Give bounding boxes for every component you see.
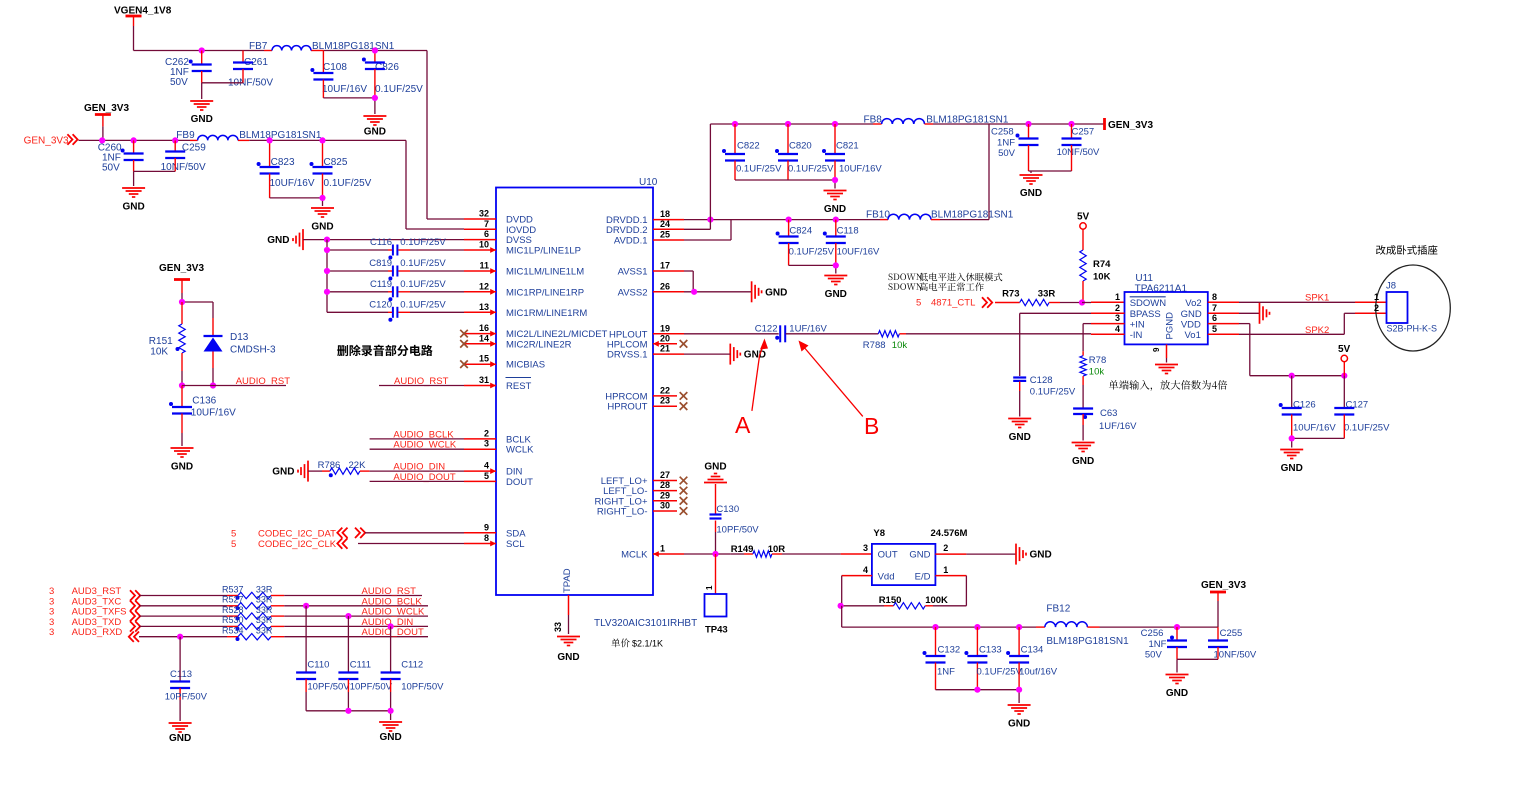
wire FB12 out: [1087, 626, 1218, 628]
svg-text:10PF/50V: 10PF/50V: [350, 682, 393, 693]
ground GND below C113: [169, 723, 192, 744]
svg-text:C110: C110: [307, 660, 329, 671]
junction dot C260 top: [131, 137, 137, 143]
svg-text:0.1UF/25V: 0.1UF/25V: [324, 178, 372, 189]
power port 5V at R74: [1077, 212, 1090, 230]
junction dot pin18: [707, 217, 713, 223]
svg-text:32: 32: [479, 209, 489, 219]
U10 pin 8 SCL: [464, 533, 524, 550]
svg-text:10k: 10k: [892, 340, 908, 351]
svg-text:MIC1LM/LINE1LM: MIC1LM/LINE1LM: [506, 267, 584, 278]
capacitor C126: [1279, 376, 1337, 439]
svg-text:7: 7: [484, 219, 489, 229]
svg-text:C132: C132: [938, 645, 961, 656]
svg-text:GND: GND: [311, 222, 333, 233]
svg-text:4: 4: [484, 461, 489, 471]
svg-text:27: 27: [660, 470, 670, 480]
svg-text:5: 5: [916, 298, 921, 309]
junction dot C134 bottom: [1016, 687, 1022, 693]
junction dot AUDIO_RST left: [179, 382, 185, 388]
U10 pin 13 MIC1RM/LINE1RM: [464, 302, 587, 319]
resistor R788: [863, 331, 908, 351]
connector J8: [1374, 265, 1450, 351]
capacitor C110: [296, 606, 350, 711]
svg-text:1NF: 1NF: [997, 138, 1015, 149]
svg-text:10uf/16V: 10uf/16V: [1019, 667, 1058, 678]
wire C824 C118 bottom: [789, 265, 836, 273]
svg-text:FB9: FB9: [176, 130, 195, 141]
junction dot C262 top: [199, 47, 205, 53]
svg-text:-IN: -IN: [1130, 330, 1143, 341]
ferrite bead FB9: [176, 130, 322, 141]
resistor R74: [1080, 229, 1111, 302]
wire C262 C261 bottom: [202, 83, 243, 99]
svg-text:U10: U10: [639, 177, 658, 188]
ferrite bead FB10: [866, 210, 1014, 221]
wire GEN3V3 node to branches: [182, 293, 213, 318]
junction dot C111 bottom: [345, 708, 351, 714]
wire top DRVDD rail: [710, 123, 881, 125]
svg-text:15: 15: [479, 354, 489, 364]
capacitor C825: [310, 140, 372, 198]
wire C108 C826 bottom: [323, 98, 375, 114]
capacitor C111: [338, 616, 392, 711]
capacitor C119: [324, 279, 464, 302]
callout B arrow: [799, 341, 880, 440]
svg-text:5V: 5V: [1338, 344, 1351, 355]
junction dot C133 bottom: [974, 687, 980, 693]
svg-text:23: 23: [660, 396, 670, 406]
svg-text:10PF/50V: 10PF/50V: [716, 525, 759, 536]
wire C126 C127 bottom: [1292, 438, 1345, 447]
junction dot R73 R74 U11pin1: [1079, 299, 1085, 305]
svg-text:3: 3: [49, 627, 54, 638]
svg-text:5: 5: [231, 539, 236, 550]
capacitor C63: [1073, 408, 1137, 441]
svg-text:GEN_3V3: GEN_3V3: [1108, 120, 1153, 131]
capacitor C120: [327, 299, 464, 322]
wire C256 C255 bottom: [1177, 659, 1218, 672]
svg-text:$2.1/1K: $2.1/1K: [632, 639, 663, 649]
svg-text:GND: GND: [169, 733, 191, 744]
ground GND below C262: [190, 101, 213, 125]
svg-text:C820: C820: [789, 141, 812, 152]
resistor R527 net AUD3_TXC: [49, 595, 428, 611]
capacitor C826: [362, 51, 423, 98]
U10 pin 3 WCLK: [464, 439, 534, 456]
svg-text:+IN: +IN: [1130, 319, 1145, 330]
ground GND sideways U11 pin7: [1260, 303, 1270, 324]
svg-text:GEN_3V3: GEN_3V3: [159, 263, 204, 274]
U10 pin 27 LEFT_LO+: [601, 470, 688, 487]
svg-text:0.1UF/25V: 0.1UF/25V: [1030, 387, 1076, 398]
U11 pin 3 +IN: [1091, 313, 1145, 330]
U10 pin 20 HPLCOM: [607, 333, 687, 350]
svg-text:R537: R537: [222, 584, 244, 594]
svg-text:C128: C128: [1030, 375, 1053, 386]
svg-text:C826: C826: [375, 62, 399, 73]
svg-text:10UF/16V: 10UF/16V: [191, 408, 236, 419]
capacitor C257: [1057, 121, 1100, 171]
net port GEN_3V3 red: [24, 134, 78, 146]
svg-text:BLM18PG181SN1: BLM18PG181SN1: [239, 130, 322, 141]
U10 pin 4 DIN: [464, 461, 523, 478]
svg-text:10UF/16V: 10UF/16V: [1293, 423, 1336, 434]
svg-text:10: 10: [479, 240, 489, 250]
svg-text:SDA: SDA: [506, 528, 526, 539]
wire AVSS1 pin17: [684, 271, 693, 292]
ground GND below C825: [311, 208, 334, 233]
ground GND above C130: [704, 462, 727, 483]
svg-text:R530: R530: [222, 615, 244, 625]
wire U11 GND pin7: [1239, 312, 1260, 314]
capacitor C134: [1006, 627, 1058, 690]
svg-text:REST: REST: [506, 381, 532, 392]
svg-text:C111: C111: [350, 660, 371, 671]
wire AUDIO_DOUT: [370, 480, 464, 482]
svg-text:C822: C822: [737, 141, 760, 152]
net label AUDIO_RST left: [236, 376, 291, 387]
wire FB7 rail to DVDD pin32: [427, 51, 464, 220]
svg-text:GND: GND: [1020, 188, 1042, 199]
wire C260 C259 bottom: [134, 171, 176, 186]
wire +IN to R78: [1083, 324, 1091, 352]
Y8 pin 4 Vdd: [842, 565, 895, 583]
svg-text:DRVSS.1: DRVSS.1: [607, 350, 647, 361]
capacitor C133: [964, 627, 1022, 690]
wire Vdd loop down: [841, 576, 843, 606]
svg-text:R149: R149: [731, 544, 754, 555]
svg-text:DRVDD.2: DRVDD.2: [606, 225, 648, 236]
junction dot C825 bottom: [319, 195, 325, 201]
svg-text:GND: GND: [1166, 688, 1188, 699]
wire AUDIO_WCLK: [370, 448, 464, 450]
svg-text:FB12: FB12: [1046, 604, 1070, 615]
svg-text:C255: C255: [1220, 628, 1243, 639]
svg-text:C63: C63: [1100, 408, 1117, 419]
capacitor C128: [1013, 375, 1076, 417]
svg-text:VGEN4_1V8: VGEN4_1V8: [114, 6, 172, 17]
svg-text:GND: GND: [1030, 550, 1052, 561]
svg-text:GND: GND: [557, 652, 579, 663]
wire DRVSS1: [684, 353, 730, 355]
svg-text:MICBIAS: MICBIAS: [506, 360, 545, 371]
capacitor C113: [165, 637, 208, 721]
note delete recording circuit: [337, 345, 432, 357]
resistor R537 net AUD3_RST: [49, 584, 422, 600]
capacitor C259: [161, 140, 207, 173]
capacitor C112: [381, 626, 445, 710]
wire Y8 pin2 to GND: [966, 553, 1016, 555]
svg-text:GND: GND: [909, 550, 930, 561]
svg-text:FB7: FB7: [249, 41, 268, 52]
svg-text:C257: C257: [1072, 127, 1095, 138]
svg-text:R74: R74: [1093, 259, 1111, 270]
svg-text:R78: R78: [1089, 355, 1106, 366]
svg-text:21: 21: [660, 344, 670, 354]
junction dot MCLK TP43: [712, 551, 718, 557]
svg-text:4: 4: [1115, 324, 1120, 334]
svg-text:C256: C256: [1141, 628, 1164, 639]
wire GEN_3V3 rail: [79, 126, 198, 140]
svg-text:2: 2: [1374, 303, 1379, 313]
power port GEN_3V3 left-top: [84, 103, 129, 126]
resistor R786: [308, 460, 370, 477]
svg-text:FB8: FB8: [864, 115, 883, 126]
ground GND below C136: [171, 448, 194, 473]
wire R788 to U11 -IN: [906, 333, 1091, 335]
svg-text:TP43: TP43: [705, 625, 728, 636]
svg-text:AVDD.1: AVDD.1: [614, 236, 648, 247]
junction dot C111 tap: [345, 613, 351, 619]
svg-text:3: 3: [1115, 313, 1120, 323]
power port VGEN4_1V8: [114, 6, 172, 27]
svg-text:33: 33: [553, 622, 563, 632]
svg-text:C113: C113: [170, 669, 192, 680]
U10 pin 16 MIC2L/LINE2L/MICDET: [460, 323, 607, 340]
svg-text:4871_CTL: 4871_CTL: [931, 298, 975, 309]
svg-text:0.1UF/25V: 0.1UF/25V: [375, 84, 423, 95]
svg-text:2: 2: [484, 428, 489, 438]
U10 pin 28 LEFT_LO-: [603, 480, 687, 497]
junction dot C113 tap: [177, 634, 183, 640]
svg-text:10UF/16V: 10UF/16V: [839, 164, 882, 175]
U10 pin 25 AVDD.1: [614, 230, 684, 247]
junction dot C112 tap: [388, 623, 394, 629]
power port GEN_3V3 right: [1105, 118, 1154, 131]
svg-text:3: 3: [484, 439, 489, 449]
svg-text:9: 9: [1152, 347, 1161, 352]
test point TP43: [705, 554, 728, 636]
svg-text:0.1UF/25V: 0.1UF/25V: [736, 164, 782, 175]
svg-text:0.1UF/25V: 0.1UF/25V: [400, 237, 446, 248]
svg-text:25: 25: [660, 230, 670, 240]
Y8 pin 3 OUT: [863, 543, 898, 561]
net label SPK1: [1305, 292, 1329, 303]
U10 pin 12 MIC1RP/LINE1RP: [464, 281, 584, 298]
svg-text:2: 2: [943, 543, 948, 553]
U10 pin 19 HPLOUT: [609, 323, 684, 340]
svg-text:MIC1LP/LINE1LP: MIC1LP/LINE1LP: [506, 246, 581, 257]
svg-text:C122: C122: [755, 324, 778, 335]
U10 pin 1 MCLK: [621, 544, 684, 561]
U10 pin 22 HPRCOM: [605, 385, 687, 402]
svg-text:50V: 50V: [170, 77, 188, 88]
net label SPK2: [1305, 325, 1329, 336]
U10 pin 33 TPAD: [553, 568, 573, 634]
ground GND sideways at DVSS: [267, 229, 303, 250]
svg-text:GND: GND: [1008, 719, 1030, 730]
ferrite bead FB12: [1045, 604, 1129, 648]
U10 pin 32 DVDD: [464, 209, 533, 226]
svg-text:C821: C821: [836, 141, 859, 152]
ground GND below C128: [1008, 419, 1031, 444]
svg-text:0.1UF/25V: 0.1UF/25V: [400, 279, 446, 290]
net label AUDIO_BCLK: [393, 429, 454, 440]
svg-text:GND: GND: [765, 287, 787, 298]
wire DRVDD pin18 rail: [684, 219, 888, 221]
callout A arrow: [735, 339, 768, 439]
ground GND below C134: [1008, 705, 1031, 730]
junction dot 5V drop: [1341, 373, 1347, 379]
svg-text:6: 6: [1212, 313, 1217, 323]
U10 pin 26 AVSS2: [618, 281, 684, 298]
U10 pin 11 MIC1LM/LINE1LM: [464, 261, 584, 278]
wire C258 C257 bottom: [1029, 171, 1072, 173]
svg-text:R527: R527: [222, 595, 244, 605]
svg-text:GND: GND: [1009, 432, 1031, 443]
svg-text:22K: 22K: [349, 460, 367, 471]
U10 pin 9 SDA: [464, 522, 526, 539]
U11 pin 6 VDD: [1181, 313, 1239, 330]
svg-text:CODEC_I2C_CLK: CODEC_I2C_CLK: [258, 539, 337, 550]
svg-text:GND: GND: [191, 114, 213, 125]
svg-text:C116: C116: [370, 237, 392, 248]
wire SDA: [365, 532, 464, 534]
capacitor C256: [1141, 627, 1187, 660]
junction dot R151 top: [179, 299, 185, 305]
capacitor C136: [169, 386, 236, 447]
svg-text:GND: GND: [379, 732, 401, 743]
resistor R534 net AUD3_RXD: [49, 626, 428, 642]
U10 pin 18 DRVDD.1: [606, 209, 684, 226]
ground GND below C112: [379, 722, 402, 743]
svg-text:B: B: [864, 413, 879, 439]
U10 part number: [594, 618, 697, 629]
junction dot C133 top: [974, 624, 980, 630]
svg-text:BLM18PG181SN1: BLM18PG181SN1: [931, 210, 1014, 221]
resistor R78: [1080, 351, 1106, 408]
svg-text:13: 13: [479, 302, 489, 312]
svg-text:20: 20: [660, 333, 670, 343]
wire AUDIO_RST left: [182, 385, 286, 387]
svg-text:DVSS: DVSS: [506, 235, 532, 246]
svg-text:E/D: E/D: [915, 571, 931, 582]
ground GND below C118: [824, 276, 847, 301]
svg-text:5: 5: [1212, 324, 1217, 334]
note amplifier gain: [1109, 380, 1227, 391]
ground GND below C826: [363, 116, 386, 138]
svg-text:DOUT: DOUT: [506, 477, 533, 488]
svg-text:C130: C130: [716, 504, 739, 515]
svg-text:C136: C136: [192, 396, 216, 407]
svg-text:J8: J8: [1386, 281, 1396, 292]
svg-text:10NF/50V: 10NF/50V: [1214, 650, 1257, 661]
wire DVSS to GND bus: [303, 239, 464, 241]
svg-text:6: 6: [484, 229, 489, 239]
wire BPASS to C128: [1020, 313, 1091, 376]
svg-text:GND: GND: [1072, 456, 1094, 467]
net port 4871_CTL: [916, 297, 992, 308]
svg-text:Vo2: Vo2: [1185, 298, 1201, 309]
capacitor C122: [755, 324, 828, 343]
svg-text:GEN_3V3: GEN_3V3: [1201, 580, 1246, 591]
svg-text:0.1UF/25V: 0.1UF/25V: [788, 164, 834, 175]
wire R149 to Y8: [782, 553, 872, 555]
svg-text:R528: R528: [222, 605, 244, 615]
U10 pin 5 DOUT: [464, 471, 533, 488]
svg-text:18: 18: [660, 209, 670, 219]
capacitor C127: [1334, 376, 1390, 439]
junction dot AUDIO_RST D13: [210, 382, 216, 388]
svg-text:7: 7: [1212, 303, 1217, 313]
svg-text:SDOWN: SDOWN: [1130, 298, 1167, 309]
svg-text:11: 11: [479, 261, 489, 271]
wire VDD to 5V rail: [1239, 324, 1344, 376]
junction dot C256 top: [1174, 624, 1180, 630]
svg-text:10PF/50V: 10PF/50V: [307, 682, 350, 693]
U10 pin 30 RIGHT_LO-: [597, 501, 687, 518]
svg-text:24.576M: 24.576M: [931, 528, 968, 539]
svg-text:CODEC_I2C_DAT: CODEC_I2C_DAT: [258, 528, 336, 539]
svg-text:28: 28: [660, 480, 670, 490]
svg-text:VDD: VDD: [1181, 319, 1201, 330]
ferrite bead FB8: [864, 115, 1009, 126]
junction dot R150 left: [838, 603, 844, 609]
wire Vo2 SPK1: [1239, 301, 1387, 303]
capacitor C260: [98, 140, 144, 173]
svg-text:Vo1: Vo1: [1185, 330, 1201, 341]
capacitor C822: [722, 121, 782, 180]
svg-text:50V: 50V: [102, 163, 120, 174]
svg-text:D13: D13: [230, 332, 249, 343]
wire AUDIO_DIN: [370, 470, 464, 472]
junction dot C821 bottom: [832, 177, 838, 183]
junction dot C823 top: [267, 137, 273, 143]
U11 pin 2 BPASS: [1091, 303, 1161, 320]
diode D13: [204, 318, 276, 386]
junction dot DVSS bus: [324, 237, 330, 243]
svg-text:GND: GND: [364, 127, 386, 138]
wire 4871_CTL to R73: [995, 302, 1020, 304]
svg-text:9: 9: [484, 522, 489, 532]
ground GND below C260: [122, 188, 145, 213]
junction dot C825 top: [319, 137, 325, 143]
junction dot C108 bottom rail: [372, 95, 378, 101]
crystal Y8 box: [872, 528, 968, 585]
svg-text:2: 2: [1115, 303, 1120, 313]
capacitor C819: [324, 258, 464, 281]
wire E/D loop down: [933, 576, 966, 606]
wire MCLK: [684, 553, 731, 555]
svg-text:WCLK: WCLK: [506, 445, 534, 456]
capacitor C262: [165, 51, 212, 89]
junction dot C110 tap: [303, 603, 309, 609]
power port GEN_3V3 at D13: [159, 263, 204, 293]
svg-text:100K: 100K: [925, 595, 948, 606]
op-amp U10 codec box: [496, 177, 658, 595]
capacitor C820: [775, 121, 834, 180]
U10 pin 21 DRVSS.1: [607, 344, 684, 361]
svg-text:0.1UF/25V: 0.1UF/25V: [789, 247, 835, 258]
net label AUDIO_DIN: [393, 462, 445, 473]
svg-text:GEN_3V3: GEN_3V3: [24, 136, 69, 147]
junction dot AVSS2: [691, 289, 697, 295]
U10 pin 14 MIC2R/LINE2R: [460, 333, 571, 350]
svg-text:GND: GND: [267, 235, 289, 246]
ground GND below C258: [1020, 175, 1043, 199]
note SDOWN levels: [888, 273, 1002, 291]
svg-text:CMDSH-3: CMDSH-3: [230, 345, 276, 356]
note connector change: [1376, 245, 1437, 255]
svg-text:PGND: PGND: [1165, 312, 1176, 340]
resistor R149: [731, 544, 786, 557]
resistor R151: [149, 302, 185, 386]
U10 pin 31 REST: [464, 375, 532, 392]
svg-text:R150: R150: [879, 595, 902, 606]
net label AUDIO_WCLK: [393, 440, 456, 451]
capacitor C258: [991, 121, 1039, 171]
